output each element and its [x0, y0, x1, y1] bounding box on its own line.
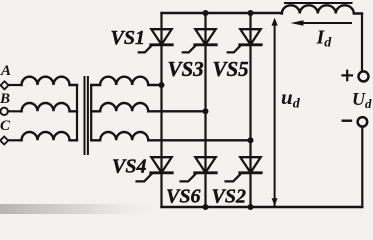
wire C	[8, 139, 21, 141]
ud arrow down	[272, 198, 278, 206]
terminal A	[1, 81, 9, 89]
wire a to leg1	[159, 82, 165, 88]
node c junction dot	[248, 137, 254, 143]
primary winding B	[22, 103, 78, 111]
svg-text:VS6: VS6	[166, 186, 200, 208]
bottom rail	[162, 206, 363, 208]
svg-text:VS1: VS1	[111, 27, 145, 49]
bottom rail junction dot leg3	[248, 204, 254, 210]
terminal minus	[358, 117, 368, 127]
thyristor VS2	[226, 157, 262, 181]
thyristor VS1	[139, 29, 172, 52]
node b junction dot	[203, 108, 209, 114]
thyristor VS5	[228, 29, 261, 52]
right edge wire top	[361, 14, 363, 72]
secondary winding b	[91, 103, 205, 111]
primary winding A	[22, 77, 78, 85]
wire A	[9, 84, 22, 86]
svg-text:VS5: VS5	[213, 57, 249, 81]
right edge wire bottom	[361, 126, 363, 207]
svg-text:C: C	[0, 118, 11, 134]
thyristor VS6	[181, 157, 217, 181]
primary star bus	[76, 85, 78, 140]
bottom rail junction dot leg2	[203, 204, 209, 210]
terminal B	[0, 108, 7, 115]
plus sign	[343, 71, 353, 80]
thyristor VS4	[137, 157, 173, 181]
transformer core left bar	[84, 77, 86, 154]
transformer core right bar	[87, 77, 89, 154]
top rail junction dot leg2	[203, 10, 209, 16]
secondary winding c	[91, 132, 250, 140]
svg-text:VS4: VS4	[112, 156, 146, 178]
leg 3 wire	[249, 13, 251, 207]
thyristor VS3	[183, 29, 216, 52]
leg 1 wire	[160, 13, 162, 207]
ud voltage annotation line	[274, 23, 276, 205]
wire B	[8, 110, 22, 112]
inductor core bar	[285, 2, 352, 4]
Id current arrow	[296, 22, 351, 24]
ud arrow up	[272, 18, 278, 26]
scan smudge bottom-left	[0, 204, 155, 214]
svg-text:A: A	[0, 63, 11, 79]
svg-text:VS2: VS2	[212, 186, 246, 208]
top rail junction dot leg3	[248, 10, 254, 16]
terminal C	[0, 137, 8, 145]
secondary star bus	[90, 85, 92, 140]
leg 2 wire	[204, 13, 206, 207]
secondary winding a	[91, 77, 161, 85]
minus sign	[343, 119, 351, 121]
svg-text:VS3: VS3	[168, 57, 204, 81]
primary winding C	[22, 132, 78, 140]
terminal plus	[359, 71, 369, 81]
svg-text:B: B	[0, 91, 10, 107]
top rail	[162, 12, 282, 14]
smoothing inductor Ld	[282, 5, 362, 13]
